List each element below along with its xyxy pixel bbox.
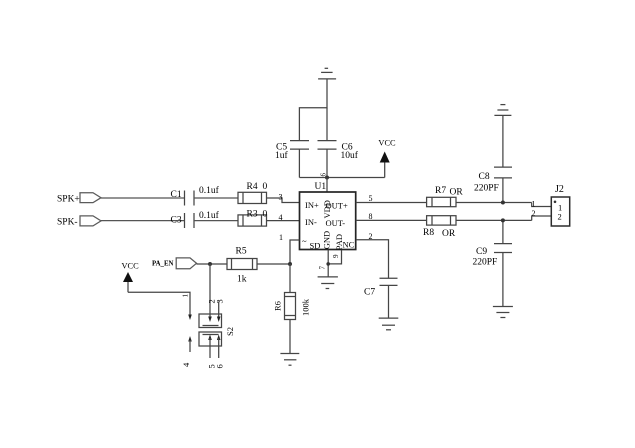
svg-text:4: 4 bbox=[181, 362, 191, 367]
svg-text:S2: S2 bbox=[225, 327, 235, 336]
svg-text:SD: SD bbox=[310, 240, 321, 250]
svg-text:0.1uf: 0.1uf bbox=[199, 185, 220, 196]
wire pin2 bbox=[356, 240, 389, 278]
wire R4 to pin3 bbox=[267, 198, 300, 203]
svg-text:NC: NC bbox=[343, 240, 355, 250]
svg-text:10uf: 10uf bbox=[341, 150, 359, 161]
node S2 junction bbox=[208, 262, 212, 266]
wire VDD rail bbox=[299, 177, 384, 179]
svg-text:1k: 1k bbox=[237, 275, 247, 285]
ground under U1 bbox=[318, 277, 338, 289]
wire C3 to R3 bbox=[194, 220, 238, 222]
wire pin6 bbox=[326, 178, 328, 193]
capacitor C6 bbox=[318, 140, 337, 142]
svg-text:R3: R3 bbox=[247, 210, 258, 220]
capacitor C1 bbox=[184, 191, 186, 206]
pin 6 stub bbox=[217, 335, 221, 341]
svg-text:1: 1 bbox=[279, 233, 283, 242]
capacitor C9 bbox=[502, 220, 504, 243]
connector J2 bbox=[551, 197, 569, 226]
svg-text:220PF: 220PF bbox=[473, 257, 498, 267]
svg-text:C7: C7 bbox=[364, 288, 375, 298]
svg-text:9: 9 bbox=[332, 254, 340, 258]
wire R7 to J2 bbox=[456, 202, 532, 204]
wire junction to S2 pin2 bbox=[209, 264, 211, 318]
svg-text:OUT-: OUT- bbox=[326, 218, 346, 228]
wire PA_EN to R5 bbox=[197, 263, 228, 265]
wire R8 to J2 bbox=[456, 219, 532, 221]
capacitor C8 bbox=[494, 166, 512, 168]
svg-text:VCC: VCC bbox=[122, 262, 140, 271]
svg-text:R8: R8 bbox=[423, 228, 434, 238]
svg-text:PA_EN: PA_EN bbox=[152, 260, 173, 267]
power VCC left bbox=[123, 272, 133, 292]
ground under C9 bbox=[493, 307, 513, 318]
wire pin8 bbox=[356, 219, 427, 221]
svg-text:C1: C1 bbox=[171, 190, 182, 200]
svg-text:J2: J2 bbox=[555, 184, 564, 195]
svg-text:OR: OR bbox=[442, 229, 456, 239]
svg-text:6: 6 bbox=[320, 173, 328, 177]
wire C1 to R4 bbox=[194, 197, 238, 199]
svg-text:0: 0 bbox=[263, 182, 268, 192]
svg-text:OR: OR bbox=[450, 188, 464, 198]
pin 3 stub bbox=[218, 302, 220, 319]
ground top (inverted) bbox=[318, 68, 336, 79]
resistor R4 bbox=[238, 192, 267, 203]
svg-text:100k: 100k bbox=[301, 298, 311, 316]
svg-text:1uf: 1uf bbox=[275, 150, 289, 161]
wire ground to caps bbox=[299, 79, 327, 141]
svg-text:2: 2 bbox=[532, 209, 536, 218]
svg-text:1: 1 bbox=[182, 294, 190, 298]
svg-text:PAD: PAD bbox=[334, 234, 344, 250]
svg-text:220PF: 220PF bbox=[474, 183, 499, 193]
wire R5 to node bbox=[257, 263, 290, 265]
wire SPK- to C3 bbox=[101, 220, 184, 222]
switch S2 bbox=[188, 302, 221, 359]
svg-text:0: 0 bbox=[263, 210, 268, 220]
wire pin7 pin9 bbox=[327, 250, 329, 277]
svg-text:IN+: IN+ bbox=[305, 200, 319, 210]
capacitor C5 bbox=[290, 140, 309, 142]
svg-text:3: 3 bbox=[215, 299, 225, 303]
svg-text:C8: C8 bbox=[479, 172, 490, 182]
capacitor C7 bbox=[380, 277, 398, 279]
connector PA_EN bbox=[176, 258, 196, 269]
svg-text:R6: R6 bbox=[273, 301, 283, 311]
node VDD junction bbox=[325, 176, 329, 180]
wire pin5 bbox=[356, 202, 427, 204]
svg-text:GND: GND bbox=[322, 231, 332, 249]
svg-text:8: 8 bbox=[369, 212, 373, 221]
wire pin1 bbox=[290, 240, 300, 264]
svg-text:3: 3 bbox=[279, 192, 283, 201]
capacitor C3 bbox=[184, 213, 186, 228]
wire SPK+ to C1 bbox=[101, 197, 184, 199]
wire VCC to S2 pin1 bbox=[128, 292, 190, 315]
wire ground to C8 bbox=[502, 115, 504, 167]
svg-text:~: ~ bbox=[302, 236, 307, 246]
ground under R6 bbox=[280, 354, 299, 366]
resistor R5 bbox=[227, 259, 257, 270]
svg-text:VCC: VCC bbox=[378, 139, 396, 148]
svg-text:2: 2 bbox=[558, 212, 562, 222]
svg-text:IN-: IN- bbox=[305, 217, 317, 227]
pin 4 stub bbox=[188, 336, 192, 342]
svg-text:SPK-: SPK- bbox=[57, 217, 78, 227]
power VCC top bbox=[380, 152, 390, 178]
resistor R3 bbox=[238, 215, 267, 226]
op-amp U1 box bbox=[300, 192, 356, 250]
svg-text:5: 5 bbox=[369, 194, 373, 203]
pin 5 stub bbox=[208, 335, 212, 341]
node R5 R6 junction bbox=[288, 262, 292, 266]
resistor R7 bbox=[427, 197, 456, 206]
svg-text:C9: C9 bbox=[476, 247, 487, 257]
svg-text:6: 6 bbox=[215, 364, 225, 368]
wire R3 to pin4 bbox=[267, 220, 300, 222]
svg-text:0.1uf: 0.1uf bbox=[199, 210, 220, 221]
svg-text:R5: R5 bbox=[236, 247, 247, 257]
svg-text:SPK+: SPK+ bbox=[57, 194, 80, 204]
node C8 junction bbox=[501, 201, 505, 205]
svg-text:1: 1 bbox=[532, 199, 536, 208]
svg-text:4: 4 bbox=[279, 213, 283, 222]
svg-text:2: 2 bbox=[369, 232, 373, 241]
ground under C7 bbox=[379, 318, 399, 330]
resistor R8 bbox=[427, 216, 456, 225]
svg-text:VDD: VDD bbox=[322, 200, 332, 218]
connector SPK+ bbox=[80, 193, 101, 203]
connector SPK- bbox=[80, 216, 101, 226]
svg-text:7: 7 bbox=[319, 266, 327, 270]
svg-text:U1: U1 bbox=[315, 182, 327, 192]
ground top right (inverted) bbox=[494, 105, 511, 116]
svg-text:R4: R4 bbox=[247, 182, 258, 192]
svg-text:R7: R7 bbox=[435, 186, 446, 196]
svg-text:C3: C3 bbox=[171, 215, 182, 225]
resistor R6 bbox=[289, 264, 291, 293]
